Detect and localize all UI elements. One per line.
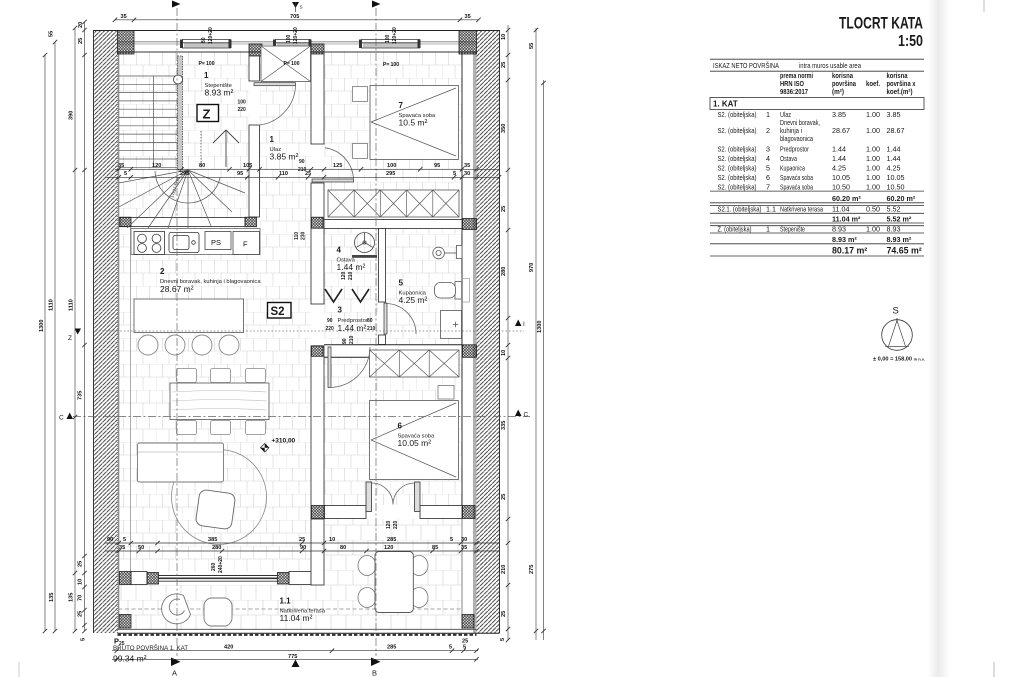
svg-text:25: 25 <box>78 38 84 44</box>
svg-text:1: 1 <box>766 225 770 234</box>
exterior wall right (hatched) <box>477 30 500 633</box>
svg-text:120+20: 120+20 <box>208 27 214 44</box>
svg-text:120+20: 120+20 <box>392 27 398 44</box>
svg-text:1.44 m²: 1.44 m² <box>337 262 366 272</box>
svg-text:735: 735 <box>78 391 84 400</box>
svg-text:120: 120 <box>386 520 392 529</box>
floor tiles: stair room <box>119 52 250 218</box>
svg-text:25: 25 <box>501 494 507 500</box>
wall pier hall left top <box>249 44 262 56</box>
interior wall: stair/kitchen <box>119 218 245 227</box>
svg-text:55: 55 <box>49 31 55 37</box>
svg-text:Spavaća soba: Spavaća soba <box>780 173 813 182</box>
wall mid vertical lower to terrace <box>311 519 324 585</box>
svg-text:3.85: 3.85 <box>887 110 901 119</box>
sliding door jamb left <box>147 573 159 585</box>
nightstands room 7 <box>353 87 368 102</box>
1. KAT box <box>710 98 924 110</box>
svg-text:1:50: 1:50 <box>898 33 923 50</box>
stairs: right rail dotted <box>200 131 202 167</box>
terrace overhang dashed <box>119 608 463 610</box>
svg-text:74.65 m²: 74.65 m² <box>887 246 922 256</box>
room label: kupaonica <box>399 279 428 306</box>
wall pier stair/kitchen left <box>120 217 131 227</box>
coffee table <box>195 489 236 530</box>
svg-text:2: 2 <box>160 267 165 276</box>
svg-text:210: 210 <box>348 271 354 280</box>
svg-text:Z: Z <box>68 335 72 342</box>
svg-text:10: 10 <box>501 350 507 356</box>
svg-text:35: 35 <box>118 163 124 169</box>
door arc: bedroom 7 <box>312 148 354 182</box>
svg-text:1.00: 1.00 <box>866 225 880 234</box>
svg-text:S: S <box>300 5 303 10</box>
svg-text:1.00: 1.00 <box>866 164 880 173</box>
stairs: treads <box>119 76 178 167</box>
svg-text:1: 1 <box>270 135 275 144</box>
interior wall: under closet1 / ostava-bath top <box>324 220 462 229</box>
svg-text:I: I <box>523 321 525 328</box>
svg-text:28.67 m²: 28.67 m² <box>160 284 194 294</box>
svg-text:1.44: 1.44 <box>887 154 901 163</box>
svg-text:1.1: 1.1 <box>766 205 776 214</box>
kitchen island stools <box>138 335 239 355</box>
svg-text:80: 80 <box>199 163 205 169</box>
kitchen island <box>134 299 244 333</box>
interior wall: hall left <box>249 56 260 217</box>
stairs: direction arrow chevron <box>213 130 239 167</box>
scanner shadow band right <box>928 0 950 677</box>
closet strip 1 (bedroom7) <box>328 190 459 217</box>
svg-text:90: 90 <box>299 159 305 165</box>
terrace armchair <box>162 594 191 624</box>
terrace column base left <box>119 615 131 629</box>
wall pier room6 top right <box>463 345 477 358</box>
sliding glass door <box>159 576 278 582</box>
svg-text:20: 20 <box>78 22 84 28</box>
floor tiles: bedroom 7 <box>324 52 462 190</box>
stairs: winder fan <box>119 170 245 228</box>
terrace table <box>375 552 413 613</box>
svg-text:295: 295 <box>386 171 395 177</box>
svg-text:10.05 m²: 10.05 m² <box>398 438 432 448</box>
flag B top <box>372 1 381 8</box>
svg-text:Predprostor: Predprostor <box>780 145 809 154</box>
svg-text:koef.(m²): koef.(m²) <box>887 87 914 96</box>
bathroom washer <box>441 311 462 339</box>
svg-text:C: C <box>59 415 64 422</box>
svg-text:P= 100: P= 100 <box>284 61 300 67</box>
Z box <box>197 105 219 122</box>
svg-text:100: 100 <box>385 34 391 43</box>
svg-text:1.44 m²: 1.44 m² <box>338 323 367 333</box>
marker Z left <box>68 329 81 343</box>
marker I right <box>515 320 525 329</box>
svg-text:1110: 1110 <box>49 299 55 311</box>
door arc: bedroom 6 <box>328 347 370 388</box>
svg-text:1.00: 1.00 <box>866 110 880 119</box>
svg-text:Stepenište: Stepenište <box>780 225 805 234</box>
svg-text:90: 90 <box>107 537 113 543</box>
svg-text:55: 55 <box>529 43 535 49</box>
svg-text:S2.1. (obiteljska): S2.1. (obiteljska) <box>718 205 762 214</box>
floor tiles: bedroom 6 <box>324 358 462 506</box>
room label: terasa <box>280 597 326 624</box>
svg-text:50: 50 <box>138 545 144 551</box>
data rows <box>718 110 905 192</box>
svg-text:90: 90 <box>342 338 348 344</box>
svg-text:420: 420 <box>224 644 233 650</box>
svg-text:120: 120 <box>152 163 161 169</box>
svg-text:1.00: 1.00 <box>866 126 880 135</box>
ostava shelf bar <box>352 255 377 258</box>
svg-text:1.44: 1.44 <box>832 145 846 154</box>
svg-text:125: 125 <box>333 163 342 169</box>
svg-text:25: 25 <box>78 561 84 567</box>
door arc: bathroom <box>384 303 416 334</box>
svg-text:Kupaonica: Kupaonica <box>780 164 805 173</box>
interior wall: center vertical <box>311 54 324 519</box>
svg-text:3: 3 <box>766 145 770 154</box>
interior wall: room6 top <box>324 344 462 346</box>
svg-text:220: 220 <box>393 520 399 529</box>
svg-text:5: 5 <box>81 638 87 641</box>
svg-text:285: 285 <box>387 644 396 650</box>
svg-text:35: 35 <box>119 545 125 551</box>
svg-text:5: 5 <box>124 171 127 177</box>
svg-text:1.00: 1.00 <box>866 173 880 182</box>
svg-text:10: 10 <box>78 579 84 585</box>
wall pier room6 bottom right <box>463 506 476 519</box>
svg-text:35: 35 <box>121 14 127 20</box>
svg-text:11.04: 11.04 <box>832 205 849 214</box>
svg-text:S2: S2 <box>271 306 285 318</box>
door arc: entry <box>254 83 296 126</box>
svg-text:220: 220 <box>238 107 247 113</box>
svg-text:90: 90 <box>327 318 333 324</box>
svg-text:5: 5 <box>500 638 506 641</box>
svg-text:S2. (obiteljska): S2. (obiteljska) <box>718 173 757 182</box>
svg-text:koef.: koef. <box>866 79 880 88</box>
svg-text:100: 100 <box>286 34 292 43</box>
svg-text:10.50: 10.50 <box>832 183 850 192</box>
svg-text:85: 85 <box>432 545 438 551</box>
svg-text:1: 1 <box>204 71 209 80</box>
svg-text:135: 135 <box>49 593 55 602</box>
kitchen F box <box>233 232 260 255</box>
svg-text:110: 110 <box>279 171 288 177</box>
bathroom sink <box>433 246 462 259</box>
svg-text:60.20 m²: 60.20 m² <box>832 194 861 203</box>
svg-text:1. KAT: 1. KAT <box>713 100 738 109</box>
svg-text:260: 260 <box>211 562 217 571</box>
svg-text:30: 30 <box>461 537 467 543</box>
stairs: core wall strip <box>178 56 183 170</box>
sofa <box>138 443 224 482</box>
svg-text:5.52 m²: 5.52 m² <box>887 214 912 223</box>
svg-text:8.93 m²: 8.93 m² <box>205 88 234 98</box>
svg-text:95: 95 <box>434 163 440 169</box>
svg-text:5: 5 <box>766 164 770 173</box>
scan artifacts <box>983 0 985 12</box>
svg-text:4: 4 <box>337 246 342 255</box>
room label: stepeniste <box>199 61 234 98</box>
svg-text:F: F <box>243 240 248 249</box>
svg-text:70: 70 <box>78 595 84 601</box>
svg-text:7: 7 <box>399 101 404 110</box>
svg-text:1: 1 <box>766 110 770 119</box>
svg-text:110: 110 <box>294 232 300 240</box>
floor tiles: ostava+predprostor <box>324 229 379 345</box>
svg-text:PS: PS <box>211 238 221 247</box>
svg-text:10.05: 10.05 <box>832 173 850 182</box>
svg-text:3.85: 3.85 <box>832 110 846 119</box>
room label: dnevni <box>160 267 261 294</box>
svg-text:10: 10 <box>501 34 507 40</box>
svg-text:5.52: 5.52 <box>887 205 901 214</box>
svg-text:30: 30 <box>464 171 470 177</box>
svg-text:8.93 m²: 8.93 m² <box>832 235 857 244</box>
svg-text:0.50: 0.50 <box>866 205 880 214</box>
svg-text:10.50: 10.50 <box>887 183 905 192</box>
svg-text:S2. (obiteljska): S2. (obiteljska) <box>718 145 757 154</box>
Z row <box>718 225 901 234</box>
french door to terrace <box>366 482 420 512</box>
bed room 7 <box>370 86 459 160</box>
svg-text:90: 90 <box>300 545 306 551</box>
marker S bottom <box>292 660 300 668</box>
S2.1 row <box>718 205 901 214</box>
svg-text:210: 210 <box>501 565 507 574</box>
right dimension chains <box>500 25 546 642</box>
svg-text:P= 100: P= 100 <box>383 62 399 68</box>
wall pier top-left corner <box>118 31 135 55</box>
wall pier stair/kitchen right end <box>245 217 257 227</box>
svg-text:280: 280 <box>212 545 221 551</box>
sliding door jamb right <box>278 573 290 585</box>
svg-text:120: 120 <box>341 271 347 280</box>
section line C horizontal <box>73 416 530 418</box>
mid dimension chain <box>105 163 501 180</box>
svg-text:210: 210 <box>349 335 355 344</box>
svg-text:C: C <box>524 412 529 419</box>
door dim texts hall <box>211 100 399 574</box>
svg-text:S2. (obiteljska): S2. (obiteljska) <box>718 164 757 173</box>
svg-text:5: 5 <box>449 644 452 650</box>
svg-text:210: 210 <box>298 167 307 173</box>
svg-text:5: 5 <box>450 537 453 543</box>
svg-text:80: 80 <box>340 545 346 551</box>
svg-text:BRUTO POVRŠINA 1. KAT: BRUTO POVRŠINA 1. KAT <box>113 645 188 652</box>
svg-text:80: 80 <box>201 37 207 43</box>
svg-text:80: 80 <box>367 318 373 324</box>
svg-text:95: 95 <box>237 171 243 177</box>
level marker +310.00 <box>260 438 295 452</box>
room label: predprostor <box>338 306 368 334</box>
svg-text:28.67: 28.67 <box>887 126 905 135</box>
compass north <box>882 306 913 351</box>
svg-text:100: 100 <box>387 163 396 169</box>
svg-text:60.20 m²: 60.20 m² <box>887 194 916 203</box>
ostava fan symbol <box>355 233 375 253</box>
wall pier hall/living <box>312 217 324 228</box>
svg-text:Spavaća soba: Spavaća soba <box>780 183 813 192</box>
svg-text:Ostava: Ostava <box>780 154 797 163</box>
stairs: mid rail line <box>153 76 155 167</box>
interior wall: living/terrace stubs <box>131 572 311 585</box>
svg-text:35: 35 <box>461 545 467 551</box>
dining chairs <box>177 369 266 435</box>
svg-text:5: 5 <box>463 644 466 650</box>
svg-text:1.1: 1.1 <box>280 597 292 606</box>
svg-text:11.04 m²: 11.04 m² <box>832 214 861 223</box>
floor tiles: bathroom <box>386 229 463 345</box>
window W3 top <box>359 32 421 52</box>
floor tiles: terrace <box>119 585 463 630</box>
svg-text:6: 6 <box>398 422 403 431</box>
svg-text:S2. (obiteljska): S2. (obiteljska) <box>718 126 757 135</box>
rug circle <box>172 450 267 545</box>
flag A top <box>172 1 181 8</box>
table rules <box>710 59 924 256</box>
svg-text:8.93 m²: 8.93 m² <box>887 235 912 244</box>
svg-text:4.25: 4.25 <box>887 164 901 173</box>
svg-text:2: 2 <box>766 126 770 135</box>
svg-text:25: 25 <box>78 611 84 617</box>
svg-text:25: 25 <box>501 62 507 68</box>
svg-text:1300: 1300 <box>39 320 45 332</box>
svg-text:1.44: 1.44 <box>887 145 901 154</box>
section line I horizontal dotted <box>95 330 524 332</box>
svg-text:295: 295 <box>180 171 189 177</box>
closet strip 2 (bedroom6) <box>370 350 460 377</box>
svg-text:blagovaonica: blagovaonica <box>780 134 813 143</box>
svg-text:25: 25 <box>501 206 507 212</box>
svg-text:6: 6 <box>766 173 770 182</box>
svg-text:25: 25 <box>501 611 507 617</box>
svg-text:25: 25 <box>299 537 305 543</box>
svg-text:S: S <box>893 306 899 317</box>
svg-text:10.05: 10.05 <box>887 173 905 182</box>
top dimension chain <box>113 14 481 22</box>
terrace slab edge bottom <box>118 629 500 635</box>
svg-text:240+20: 240+20 <box>218 556 224 573</box>
bottom dimension chain <box>112 639 479 662</box>
svg-text:275: 275 <box>529 565 535 574</box>
svg-text:4: 4 <box>766 154 770 163</box>
svg-text:1.00: 1.00 <box>866 145 880 154</box>
svg-text:5: 5 <box>399 279 404 288</box>
exterior wall left (hatched) <box>94 30 118 633</box>
svg-text:280: 280 <box>501 267 507 276</box>
hall closet crossed <box>261 46 311 82</box>
svg-text:5: 5 <box>453 171 456 177</box>
svg-text:3: 3 <box>338 306 343 315</box>
interior wall: ostava/bath separator <box>379 229 386 345</box>
terrace column base right <box>462 615 474 629</box>
inner leaf line left wall <box>130 227 132 572</box>
svg-text:S2. (obiteljska): S2. (obiteljska) <box>718 110 757 119</box>
svg-text:+310,00: +310,00 <box>272 438 296 445</box>
floor tiles: entrance hall Ulaz <box>260 52 312 227</box>
lower-mid dimension chain <box>105 537 499 553</box>
svg-text:135: 135 <box>69 593 75 602</box>
bed room 6 <box>370 401 459 480</box>
svg-text:8.93: 8.93 <box>832 225 846 234</box>
svg-text:8.93: 8.93 <box>887 225 901 234</box>
svg-text:705: 705 <box>290 14 299 20</box>
svg-text:1300: 1300 <box>537 321 543 333</box>
nightstand room 6 <box>438 386 454 400</box>
section line A vertical <box>176 8 178 656</box>
svg-text:390: 390 <box>69 111 75 120</box>
kitchen counter <box>131 229 260 255</box>
wall pier room6 bottom left <box>312 506 325 519</box>
left dimension chains <box>39 20 87 641</box>
wall pier terrace left <box>120 572 132 585</box>
kitchen sink <box>169 233 199 253</box>
window W2 top <box>273 32 312 52</box>
svg-text:775: 775 <box>288 654 297 660</box>
marker B bottom <box>371 658 381 677</box>
svg-text:Natkrivena terasa: Natkrivena terasa <box>780 205 823 214</box>
folding door chevrons <box>325 289 369 302</box>
terrace small table <box>204 598 232 626</box>
svg-text:99.34 m²: 99.34 m² <box>113 654 147 664</box>
svg-text:10.5 m²: 10.5 m² <box>399 118 428 128</box>
svg-text:35: 35 <box>464 163 470 169</box>
kitchen PS box <box>205 232 231 250</box>
wall pier mid top <box>311 44 324 54</box>
svg-text:230: 230 <box>301 231 307 240</box>
svg-text:285: 285 <box>387 537 396 543</box>
svg-text:7: 7 <box>766 183 770 192</box>
dining table <box>170 383 269 420</box>
svg-text:Z: Z <box>203 107 211 122</box>
svg-text:ISKAZ NETO POVRŠINA: ISKAZ NETO POVRŠINA <box>713 61 779 70</box>
svg-text:11.04 m²: 11.04 m² <box>280 613 313 623</box>
svg-text:A: A <box>172 669 177 677</box>
section line B vertical <box>375 8 377 656</box>
wall pier bath right <box>463 219 477 230</box>
rotated window dims W1 <box>201 27 398 44</box>
kitchen stove <box>134 232 165 255</box>
svg-text:1.00: 1.00 <box>866 183 880 192</box>
svg-text:S2. (obiteljska): S2. (obiteljska) <box>718 154 757 163</box>
svg-text:5: 5 <box>123 537 126 543</box>
wall pier living/pred <box>312 346 324 357</box>
svg-text:B: B <box>372 669 377 677</box>
svg-text:TLOCRT KATA: TLOCRT KATA <box>839 15 923 33</box>
svg-text:120: 120 <box>384 545 393 551</box>
marker C left <box>59 413 73 422</box>
stairs: top column circle <box>174 75 183 84</box>
floor tiles: living room <box>119 227 311 572</box>
svg-text:4.25 m²: 4.25 m² <box>399 295 428 305</box>
svg-text:28.67: 28.67 <box>832 126 850 135</box>
svg-text:3.85 m²: 3.85 m² <box>270 152 299 162</box>
svg-text:4.25: 4.25 <box>832 164 846 173</box>
bathroom toilet <box>435 279 470 303</box>
svg-text:80.17 m²: 80.17 m² <box>832 246 867 256</box>
window W1 top <box>180 32 232 52</box>
svg-text:970: 970 <box>529 263 535 272</box>
svg-text:P= 100: P= 100 <box>199 61 215 67</box>
svg-text:9836:2017: 9836:2017 <box>780 87 808 96</box>
svg-text:385: 385 <box>208 537 217 543</box>
room label: ulaz <box>270 135 299 162</box>
svg-text:1110: 1110 <box>69 299 75 311</box>
